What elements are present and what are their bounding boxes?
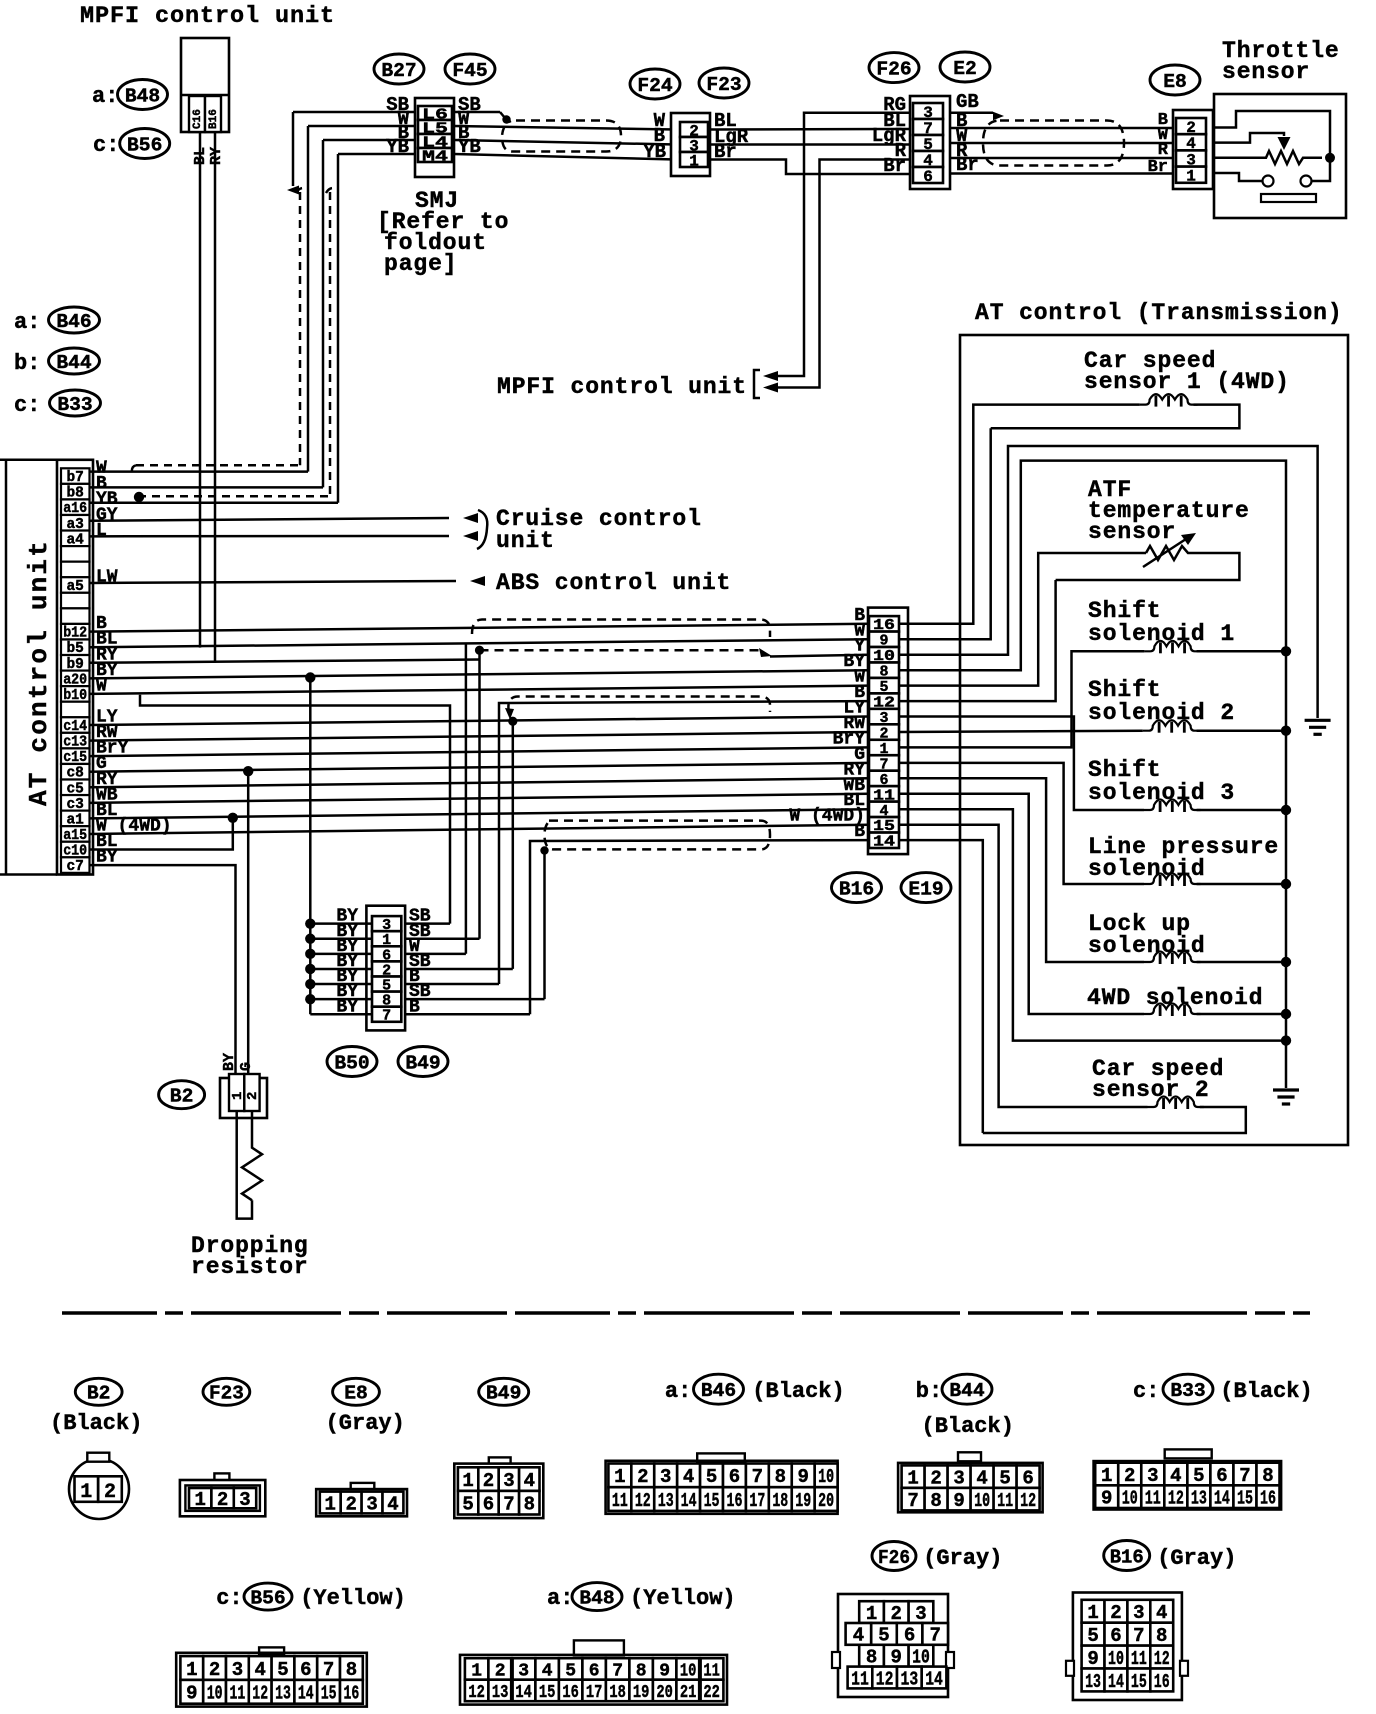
B46 pin face — [697, 1453, 745, 1462]
svg-text:6: 6 — [1216, 1465, 1227, 1487]
svg-text:a:: a: — [14, 310, 40, 335]
svg-text:1: 1 — [1101, 1465, 1112, 1487]
svg-text:(Black): (Black) — [922, 1414, 1014, 1439]
inductor lock up solenoid — [1144, 952, 1201, 963]
svg-text:21: 21 — [680, 1683, 697, 1703]
separator chain line — [62, 1311, 1310, 1315]
wire B B16 pin14 to vertical down — [530, 840, 869, 1014]
svg-text:3: 3 — [1147, 1465, 1158, 1487]
F23 pin face — [214, 1473, 229, 1481]
wire Br E2 to E8 pin1 — [950, 172, 1176, 175]
svg-text:7: 7 — [907, 1490, 918, 1512]
svg-text:19: 19 — [633, 1683, 650, 1703]
svg-text:B16: B16 — [1110, 1546, 1144, 1568]
svg-text:10: 10 — [818, 1466, 834, 1488]
connector B16/E19 block — [868, 608, 908, 855]
svg-text:16: 16 — [562, 1683, 579, 1703]
svg-text:B33: B33 — [57, 394, 92, 416]
throttle wire from contact to junction — [1312, 158, 1330, 181]
wire SB from SMJ L6 left then down to shield — [293, 111, 415, 114]
svg-text:B56: B56 — [250, 1587, 285, 1609]
svg-text:22: 22 — [703, 1683, 720, 1703]
wire YB SMJ to F24 pin1 — [454, 154, 676, 160]
throttle contact circle left — [1263, 176, 1274, 187]
svg-text:4: 4 — [1170, 1465, 1181, 1487]
inductor 4WD solenoid — [1144, 1004, 1201, 1015]
svg-text:F26: F26 — [876, 58, 911, 80]
svg-text:(Yellow): (Yellow) — [630, 1586, 736, 1611]
svg-text:E8: E8 — [344, 1383, 368, 1405]
svg-text:6: 6 — [729, 1466, 740, 1488]
wire B16 pin1 to shift solenoid 1 — [899, 651, 1144, 747]
svg-text:14: 14 — [681, 1490, 697, 1512]
svg-text:11: 11 — [1131, 1648, 1147, 1670]
inductor line pressure solenoid — [1144, 874, 1201, 885]
svg-text:AT control (Transmission): AT control (Transmission) — [975, 300, 1343, 326]
AT control unit pin cells — [61, 468, 90, 484]
shield drain S3 vertical with dot — [540, 846, 548, 854]
svg-text:Br: Br — [1148, 158, 1168, 177]
wire c15 BrY to B16 pin1 — [90, 747, 870, 756]
svg-text:F23: F23 — [209, 1383, 244, 1405]
B33 pin face — [1165, 1449, 1212, 1458]
svg-text:B2: B2 — [87, 1383, 111, 1405]
svg-text:6: 6 — [1110, 1625, 1121, 1647]
svg-text:4: 4 — [853, 1625, 864, 1647]
throttle sensor box — [1214, 94, 1346, 218]
svg-text:14: 14 — [515, 1683, 532, 1703]
connector oval B2 (bottom) — [75, 1378, 122, 1405]
svg-text:12: 12 — [1154, 1648, 1170, 1670]
B56 pin face — [259, 1647, 284, 1654]
shield dashed stadium between E2 and E8 — [983, 121, 1124, 166]
wire LgR F23 to F26 pin5 — [708, 143, 911, 146]
wire GB from E2 pin3 to shield arrow — [950, 111, 993, 114]
inductor car speed sensor 2 — [1148, 1097, 1204, 1108]
svg-text:L: L — [96, 521, 107, 541]
svg-text:2: 2 — [209, 1659, 220, 1681]
wire b12 B to B16 pin16 — [90, 624, 870, 632]
svg-text:8: 8 — [346, 1659, 357, 1681]
svg-text:1: 1 — [186, 1659, 197, 1681]
svg-text:page]: page] — [384, 251, 458, 277]
junction dot throttle — [1325, 153, 1335, 163]
connector E8 block — [1173, 110, 1213, 189]
svg-text:9: 9 — [1087, 1648, 1098, 1670]
svg-text:8: 8 — [1262, 1465, 1273, 1487]
svg-text:3: 3 — [660, 1466, 671, 1488]
svg-text:10: 10 — [207, 1683, 223, 1705]
B44 pin face — [958, 1452, 981, 1461]
svg-text:9: 9 — [1101, 1488, 1112, 1510]
shield dashed line S1 with hooks — [472, 620, 770, 638]
svg-text:18: 18 — [772, 1490, 788, 1512]
wire B from SMJ L4 down to pin b8 — [323, 139, 415, 142]
svg-text:15: 15 — [704, 1490, 720, 1512]
connector oval E19 — [901, 873, 951, 903]
svg-text:9: 9 — [953, 1490, 964, 1512]
wire B B16 pin12 down to B49 pin5 — [499, 701, 869, 984]
svg-text:20: 20 — [656, 1683, 673, 1703]
svg-text:15: 15 — [1237, 1488, 1253, 1510]
svg-text:6: 6 — [1022, 1467, 1033, 1489]
svg-text:B16: B16 — [839, 878, 874, 900]
BY stub wires to B50 pins with dots — [310, 922, 372, 925]
svg-text:1: 1 — [1087, 1602, 1098, 1624]
svg-text:4WD solenoid: 4WD solenoid — [1087, 985, 1263, 1011]
ground 2 at bus bottom — [1273, 1088, 1299, 1091]
car speed sensor 2 return loop — [983, 1107, 1246, 1133]
wire W from SMJ L5 down to pin b7 — [308, 125, 415, 128]
svg-text:6: 6 — [300, 1659, 311, 1681]
connector oval B27 — [374, 54, 424, 84]
wire B16 pin16 to car speed sensor 1 — [899, 405, 1140, 624]
svg-text:B2: B2 — [170, 1086, 194, 1108]
svg-text:5: 5 — [1193, 1465, 1204, 1487]
throttle switch wire pin1 — [1213, 173, 1262, 181]
svg-text:2: 2 — [637, 1466, 648, 1488]
connector oval B2 (mid) — [159, 1081, 205, 1109]
connector oval B16 (mid) — [832, 873, 882, 903]
connector oval B50 — [327, 1047, 377, 1077]
svg-text:1: 1 — [80, 1481, 92, 1504]
svg-text:12: 12 — [1168, 1488, 1184, 1510]
SMJ connector B27/F45 — [415, 98, 454, 177]
svg-text:17: 17 — [749, 1490, 765, 1512]
svg-text:4: 4 — [1156, 1602, 1167, 1624]
4WD solenoid to bus — [1197, 1013, 1286, 1016]
lock up solenoid to bus — [1197, 961, 1286, 964]
svg-text:c7: c7 — [66, 859, 83, 875]
svg-text:c:: c: — [1133, 1379, 1159, 1404]
svg-text:2: 2 — [891, 1603, 902, 1625]
svg-text:18: 18 — [609, 1683, 626, 1703]
connector oval F23 (bottom) — [203, 1378, 250, 1405]
svg-text:15: 15 — [539, 1683, 556, 1703]
svg-text:G: G — [238, 1062, 255, 1071]
B49 right stub wires — [404, 922, 450, 925]
svg-text:1: 1 — [1186, 167, 1196, 185]
svg-text:b:: b: — [916, 1379, 942, 1404]
svg-text:16: 16 — [1260, 1488, 1276, 1510]
wire a5 to ABS arrow — [90, 581, 457, 583]
wire B16 pin5 to ATF sensor — [899, 553, 1146, 686]
shield dashed around W wire down-left — [296, 188, 307, 193]
svg-text:8: 8 — [775, 1466, 786, 1488]
B2 pin face — [69, 1459, 129, 1519]
svg-text:13: 13 — [1191, 1488, 1207, 1510]
svg-text:resistor: resistor — [191, 1254, 309, 1280]
svg-text:7: 7 — [1133, 1625, 1144, 1647]
wire B16 pin8 to solenoid common bus top — [899, 461, 1286, 1088]
wire a15 W(4WD) to B16 pin15 — [90, 825, 870, 834]
svg-text:14: 14 — [298, 1683, 314, 1705]
svg-text:E8: E8 — [1163, 71, 1187, 93]
svg-text:E2: E2 — [953, 58, 977, 80]
svg-text:(Yellow): (Yellow) — [300, 1586, 406, 1611]
wire B16 pin10 to ground 1 — [899, 446, 1318, 718]
wire c8 G to B16 pin7 with junction to B2 — [90, 763, 870, 772]
svg-text:c:: c: — [14, 393, 40, 418]
inductor shift solenoid 3 — [1144, 800, 1201, 811]
svg-text:3: 3 — [1133, 1602, 1144, 1624]
wire a3 to cruise control arrow — [90, 518, 450, 521]
solenoid 2 to bus — [1197, 729, 1286, 732]
svg-text:4: 4 — [524, 1470, 535, 1492]
wire c14 LY to B16 pin3 — [90, 717, 870, 726]
svg-text:c:: c: — [216, 1586, 242, 1611]
svg-text:14: 14 — [1214, 1488, 1230, 1510]
svg-text:10: 10 — [912, 1647, 930, 1669]
svg-text:4: 4 — [387, 1493, 398, 1515]
svg-text:(Black): (Black) — [752, 1379, 844, 1404]
svg-text:2: 2 — [930, 1467, 941, 1489]
svg-text:(Gray): (Gray) — [326, 1411, 405, 1436]
throttle slot bar — [1261, 194, 1316, 202]
wire B16 pin12 from ATF return — [899, 580, 1056, 701]
inductor shift solenoid 2 — [1143, 720, 1201, 731]
svg-text:17: 17 — [586, 1683, 603, 1703]
solenoid 3 to bus — [1197, 809, 1286, 812]
wire a20 BY to B16 pin8 with junction — [90, 670, 870, 678]
wire c10 BL joins a1 — [90, 818, 233, 850]
connector oval B49 (bottom) — [479, 1378, 529, 1405]
svg-text:a:: a: — [547, 1586, 573, 1611]
svg-text:sensor: sensor — [1088, 519, 1176, 545]
svg-text:12: 12 — [635, 1490, 651, 1512]
svg-text:solenoid: solenoid — [1088, 856, 1206, 882]
svg-text:solenoid: solenoid — [1088, 933, 1206, 959]
svg-text:3: 3 — [953, 1467, 964, 1489]
B49 pin face — [489, 1457, 511, 1464]
svg-text:6: 6 — [923, 168, 933, 186]
svg-text:1: 1 — [194, 1489, 205, 1511]
wire RY from MPFI box teeing onto b9 wire — [214, 132, 217, 663]
svg-text:14: 14 — [1108, 1671, 1124, 1693]
inductor car speed sensor 1 — [1140, 394, 1198, 405]
svg-text:M4: M4 — [422, 148, 448, 165]
svg-text:B49: B49 — [405, 1052, 440, 1074]
svg-text:sensor: sensor — [1222, 59, 1310, 85]
connector F24/F23 block — [671, 113, 710, 176]
svg-text:3: 3 — [503, 1470, 514, 1492]
line pressure solenoid to bus — [1197, 883, 1286, 886]
wire SB to shield junction — [454, 111, 500, 114]
svg-text:B44: B44 — [56, 352, 91, 374]
throttle potentiometer resistor wire pin3 — [1213, 151, 1322, 164]
cruise control bracket — [477, 510, 487, 549]
svg-text:12: 12 — [252, 1683, 268, 1705]
svg-text:4: 4 — [683, 1466, 694, 1488]
frame lines at page edge — [0, 459, 57, 462]
svg-text:9: 9 — [186, 1683, 197, 1705]
svg-text:solenoid 3: solenoid 3 — [1088, 780, 1235, 806]
svg-text:11: 11 — [612, 1490, 628, 1512]
svg-text:12: 12 — [876, 1668, 894, 1690]
AT control unit connector outer box — [57, 460, 93, 875]
svg-text:15: 15 — [321, 1683, 337, 1705]
svg-text:7: 7 — [382, 1008, 391, 1025]
throttle wire pin2 to top right — [1213, 111, 1330, 158]
B16 pin face — [1073, 1593, 1182, 1701]
svg-text:5: 5 — [706, 1466, 717, 1488]
svg-text:1: 1 — [866, 1603, 877, 1625]
svg-text:C16: C16 — [192, 109, 204, 129]
svg-text:B49: B49 — [486, 1383, 521, 1405]
svg-text:F24: F24 — [637, 75, 672, 97]
svg-text:12: 12 — [1020, 1490, 1036, 1512]
svg-text:(Black): (Black) — [50, 1411, 142, 1436]
connector F26/E2 block — [910, 96, 950, 189]
shield drain Y vertical down to B49 pin1 — [478, 650, 481, 939]
svg-text:9: 9 — [891, 1647, 902, 1669]
svg-text:1: 1 — [689, 152, 699, 170]
wire b10 W to B16 pin5 — [90, 686, 870, 694]
svg-text:20: 20 — [818, 1490, 834, 1512]
svg-text:B33: B33 — [1170, 1380, 1205, 1402]
branch from b10 down to B49 pin3 — [140, 695, 450, 924]
svg-text:B46: B46 — [701, 1380, 736, 1402]
svg-text:MPFI control unit: MPFI control unit — [497, 374, 747, 400]
connector oval F24 — [630, 69, 680, 99]
svg-text:B16: B16 — [208, 109, 220, 129]
svg-text:6: 6 — [904, 1625, 915, 1647]
svg-text:8: 8 — [930, 1490, 941, 1512]
shield dashed Y line with dot and arrow to pin10 wire — [480, 649, 761, 652]
svg-text:(Gray): (Gray) — [1157, 1546, 1236, 1571]
shield dashed line S2 with hook arrow — [508, 697, 770, 714]
AT transmission box — [960, 335, 1348, 1145]
svg-text:1: 1 — [907, 1467, 918, 1489]
wire B16 pin15 to car speed sensor 2 — [899, 825, 1148, 1107]
wire Y B16 pin10 short segment — [770, 655, 869, 657]
svg-text:3: 3 — [232, 1659, 243, 1681]
svg-text:8: 8 — [1156, 1625, 1167, 1647]
svg-text:8: 8 — [866, 1647, 877, 1669]
svg-text:8: 8 — [524, 1494, 535, 1516]
wire a1 BL to B16 pin4 with junction — [90, 809, 870, 818]
svg-text:B27: B27 — [381, 60, 416, 82]
B48 pin face — [574, 1640, 624, 1655]
shield drain S2 with dot on c14 wire down to B49 pin2 — [508, 717, 517, 726]
B48 thick separators — [510, 1658, 514, 1701]
svg-text:4: 4 — [254, 1659, 265, 1681]
connector B50/B49 block — [366, 906, 405, 1031]
svg-text:1: 1 — [230, 1092, 246, 1100]
throttle contact circle right — [1301, 176, 1312, 187]
svg-text:7: 7 — [503, 1494, 514, 1516]
connector oval F23 — [699, 68, 749, 98]
svg-text:AT control unit: AT control unit — [24, 539, 54, 806]
svg-text:15: 15 — [1131, 1671, 1147, 1693]
wire B16 pin4 to bus mid — [899, 809, 1286, 1040]
svg-text:F23: F23 — [706, 74, 741, 96]
wire Br F23 to F26 pin6 with jog — [708, 160, 911, 175]
wire c5 RY to B16 pin6 — [90, 778, 870, 787]
svg-text:unit: unit — [496, 528, 555, 554]
solenoid 1 to bus — [1197, 650, 1286, 653]
wire c7 BY down to B2 pin1 — [90, 865, 236, 1075]
wire B16 pin14 from sensor 2 return — [899, 840, 983, 1133]
svg-text:2: 2 — [483, 1470, 494, 1492]
svg-text:11: 11 — [851, 1668, 869, 1690]
wire W E2 to E8 pin4 — [950, 142, 1176, 145]
svg-text:10: 10 — [974, 1490, 990, 1512]
svg-text:F45: F45 — [452, 60, 487, 82]
throttle wiper wire pin4 with down arrow — [1213, 133, 1284, 143]
connector oval E8 — [1150, 65, 1200, 95]
svg-text:13: 13 — [901, 1668, 919, 1690]
svg-text:5: 5 — [462, 1494, 473, 1516]
svg-text:16: 16 — [1154, 1671, 1170, 1693]
svg-text:5: 5 — [999, 1467, 1010, 1489]
wire c3 WB to B16 pin11 — [90, 794, 870, 803]
svg-text:B46: B46 — [56, 311, 91, 333]
svg-text:3: 3 — [915, 1603, 926, 1625]
svg-text:7: 7 — [929, 1625, 940, 1647]
svg-text:b:: b: — [14, 351, 40, 376]
connector B2 block — [220, 1078, 267, 1118]
connector oval E8 (bottom) — [333, 1378, 380, 1405]
wire B E2 to E8 pin2 — [950, 127, 1176, 130]
svg-text:11: 11 — [1145, 1488, 1161, 1510]
connector oval B49 — [398, 1047, 448, 1077]
svg-text:2: 2 — [1110, 1602, 1121, 1624]
wire BL F23 to F26 pin7 — [708, 128, 911, 131]
svg-text:B48: B48 — [579, 1587, 614, 1609]
svg-text:a:: a: — [665, 1379, 691, 1404]
wire R E2 to E8 pin3 — [950, 157, 1176, 160]
wire R from F26 pin4 down to MPFI arrow — [770, 160, 911, 388]
svg-text:B44: B44 — [949, 1380, 984, 1402]
svg-text:19: 19 — [795, 1490, 811, 1512]
F26 pin face — [838, 1594, 948, 1697]
svg-text:16: 16 — [344, 1683, 360, 1705]
svg-text:B56: B56 — [127, 134, 162, 156]
svg-text:4: 4 — [976, 1467, 987, 1489]
svg-text:10: 10 — [1108, 1648, 1124, 1670]
wire B16 pin6 to lock up solenoid — [899, 778, 1144, 962]
svg-text:2: 2 — [1124, 1465, 1135, 1487]
svg-text:BL: BL — [192, 147, 209, 165]
shield dashed stadium S3 around W(4WD)/B wires — [545, 821, 771, 850]
svg-text:2: 2 — [345, 1493, 356, 1515]
svg-text:3: 3 — [239, 1489, 250, 1511]
ground 1 — [1305, 719, 1331, 722]
svg-text:3: 3 — [366, 1493, 377, 1515]
svg-text:7: 7 — [323, 1659, 334, 1681]
wire YB from SMJ M4 down to pin a16 — [338, 153, 415, 156]
svg-text:5: 5 — [277, 1659, 288, 1681]
connector oval F26 — [869, 53, 919, 83]
shield dashed around B wire down-left with dot — [326, 188, 336, 193]
resistor zigzag — [242, 1111, 262, 1200]
svg-text:BY: BY — [336, 997, 358, 1017]
svg-text:E19: E19 — [908, 878, 943, 900]
svg-text:(Black): (Black) — [1220, 1379, 1312, 1404]
svg-text:Br: Br — [883, 155, 906, 177]
svg-text:2: 2 — [217, 1489, 228, 1511]
svg-text:MPFI control unit: MPFI control unit — [80, 3, 335, 30]
wire B16 pin2 to shift solenoid 2 — [899, 731, 1143, 732]
wire B16 pin7 to line pressure solenoid — [899, 763, 1144, 884]
wire G from c8 junction down to B2 pin2 — [247, 771, 250, 1075]
connector B16 (bottom) — [1104, 1541, 1150, 1571]
E8 pin face — [351, 1483, 375, 1490]
connector oval F45 — [445, 54, 495, 84]
wire W SMJ to F24 pin2 — [454, 126, 676, 130]
wire B16 pin11 to 4WD solenoid — [899, 794, 1144, 1014]
